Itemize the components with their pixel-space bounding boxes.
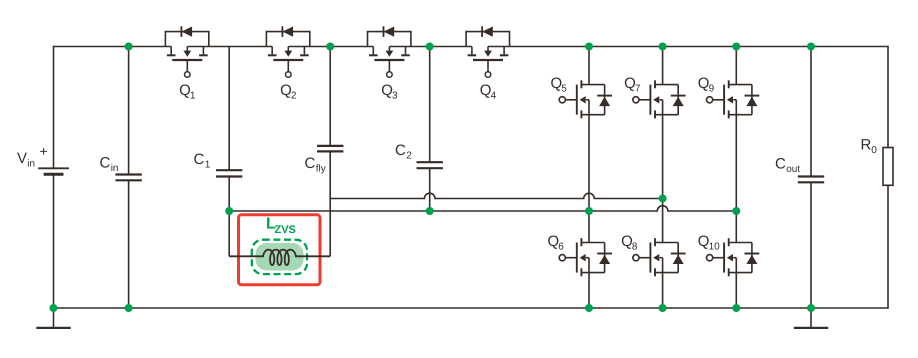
transistor Q7 (Q7) with body diode	[624, 75, 686, 118]
wire leg source of Q10 to bottom rail	[735, 273, 737, 308]
svg-text:C: C	[395, 142, 406, 159]
wire Vin branch bottom	[53, 174, 55, 308]
transistor Q5 (Q5) with body diode	[551, 75, 613, 118]
capacitor Cfly	[305, 146, 344, 175]
junction: node B at C1/Lzvs	[225, 207, 233, 215]
junction: Q6 source on ground rail	[585, 304, 593, 312]
capacitor C2	[395, 142, 443, 168]
wire C2 branch top	[429, 47, 431, 163]
inductor Lzvs green region	[256, 243, 304, 271]
wire C1 branch down to node B and Lzvs	[228, 177, 230, 257]
transistor Q4 (Q4) with body diode	[466, 26, 509, 101]
svg-text:8: 8	[632, 241, 638, 252]
svg-text:R: R	[861, 137, 872, 154]
wire Cin branch top	[128, 47, 130, 175]
inductor Lzvs highlight red box	[239, 215, 321, 285]
wire leg drain of Q9 from top rail	[735, 47, 737, 85]
wire top rail: Q4 to output	[488, 46, 888, 48]
capacitor Cin	[100, 155, 142, 181]
svg-text:C: C	[100, 155, 111, 172]
wire bottom ground rail	[54, 307, 889, 309]
wire top rail: Q2 to Q3 (Cfly tap)	[288, 46, 373, 48]
svg-text:0: 0	[871, 145, 877, 156]
wire R0 branch top	[887, 46, 889, 148]
svg-text:1: 1	[205, 160, 211, 171]
wire leg source of Q8 to bottom rail	[662, 273, 664, 308]
wire Cfly branch down to node A and Lzvs	[329, 151, 331, 256]
junction: Vin- on ground rail	[50, 304, 58, 312]
wire R0 branch bottom	[887, 185, 889, 308]
svg-text:in: in	[27, 159, 35, 170]
inductor Lzvs coil	[229, 216, 330, 266]
svg-text:10: 10	[709, 241, 721, 252]
junction: node A at Q7/Q8 midpoint	[659, 195, 667, 203]
svg-text:2: 2	[406, 151, 412, 162]
wire node A: Cfly/Lzvs to Q7-Q8 midpoint, hops over C2 and leg1	[330, 193, 662, 198]
wire leg midpoint Q5/Q6	[588, 115, 590, 243]
wire Cin branch bottom	[128, 180, 130, 308]
junction: Cin bottom on ground rail	[125, 304, 133, 312]
voltage source Vin (battery)	[17, 143, 69, 174]
transistor Q10 (Q10) with body diode	[698, 233, 760, 276]
transistor Q3 (Q3) with body diode	[368, 26, 411, 101]
svg-text:C: C	[194, 151, 205, 168]
svg-text:C: C	[305, 155, 316, 172]
svg-text:V: V	[17, 150, 27, 167]
junction: Q9 drain on output rail	[732, 43, 740, 51]
capacitor Cout	[775, 156, 824, 183]
wire leg midpoint Q9/Q10	[735, 115, 737, 243]
junction: node B at C2 bottom	[426, 207, 434, 215]
ground (right)	[794, 308, 828, 328]
resistor R0	[861, 137, 894, 186]
svg-text:2: 2	[291, 91, 297, 102]
wire C1 branch top	[228, 47, 230, 171]
wire leg midpoint Q7/Q8	[662, 115, 664, 243]
svg-text:1: 1	[190, 91, 196, 102]
wire Cout branch top	[810, 47, 812, 177]
junction: node B at Q9/Q10 midpoint	[732, 207, 740, 215]
transistor Q1 (Q1) with body diode	[165, 26, 208, 101]
svg-text:C: C	[775, 156, 786, 173]
capacitor C1	[194, 151, 243, 177]
transistor Q6 (Q6) with body diode	[548, 233, 613, 276]
wire C2 branch down to node B	[429, 168, 431, 211]
junction: node B at Q5/Q6 midpoint	[585, 207, 593, 215]
transistor Q9 (Q9) with body diode	[698, 75, 760, 118]
junction: Cout bottom on ground rail	[807, 304, 815, 312]
junction: C2 tap node	[426, 43, 434, 51]
svg-text:6: 6	[558, 241, 564, 252]
junction: Cin tap on input rail	[125, 43, 133, 51]
wire top rail: Vin node to Q1	[54, 46, 172, 48]
junction: Q7 drain on output rail	[659, 43, 667, 51]
wire leg source of Q6 to bottom rail	[588, 273, 590, 308]
wire top rail: Q1 to Q2 (C1 tap)	[187, 46, 272, 48]
transistor Q8 (Q8) with body diode	[621, 233, 686, 276]
junction: Q8 source on ground rail	[659, 304, 667, 312]
ground (left)	[36, 308, 70, 328]
wire Cout branch bottom	[810, 182, 812, 308]
junction: Q10 source on ground rail	[732, 304, 740, 312]
transistor Q2 (Q2) with body diode	[266, 26, 309, 101]
svg-text:9: 9	[709, 84, 715, 95]
junction: Cfly tap node	[326, 43, 334, 51]
svg-text:5: 5	[561, 84, 567, 95]
wire Vin branch top	[53, 46, 55, 169]
svg-text:4: 4	[491, 91, 497, 102]
wire leg drain of Q5 from top rail	[588, 47, 590, 85]
wire Cfly branch top	[329, 47, 331, 146]
junction: Q5 drain on output rail	[585, 43, 593, 51]
svg-text:fly: fly	[316, 164, 326, 175]
wire node B: C1/Lzvs to C2, Q5-Q6 and Q9-Q10 midpoints, hops over leg2	[229, 206, 736, 211]
wire leg drain of Q7 from top rail	[662, 47, 664, 85]
svg-text:+: +	[40, 143, 48, 159]
junction: Cout tap on output rail	[807, 43, 815, 51]
svg-text:3: 3	[392, 91, 398, 102]
svg-text:in: in	[111, 163, 119, 174]
wire top rail: Q3 to Q4 (C2 tap)	[389, 46, 472, 48]
svg-text:out: out	[786, 164, 800, 175]
svg-text:ZVS: ZVS	[275, 224, 296, 236]
svg-text:7: 7	[635, 84, 641, 95]
